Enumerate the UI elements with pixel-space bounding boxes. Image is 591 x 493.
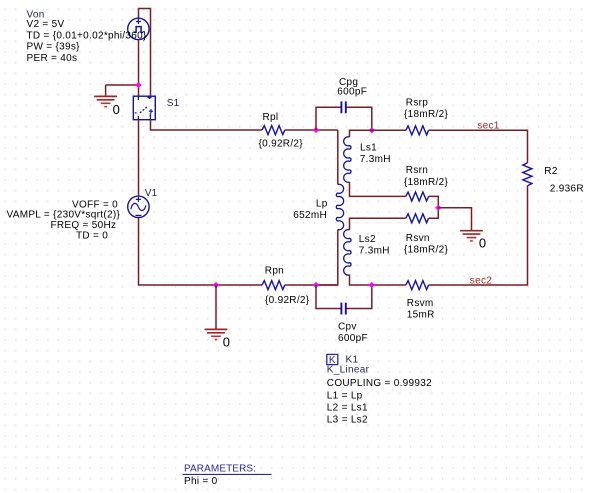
svg-text:PER = 40s: PER = 40s	[27, 53, 78, 64]
svg-text:Phi = 0: Phi = 0	[184, 476, 218, 487]
wire ground tap	[106, 85, 139, 96]
svg-text:sec2: sec2	[470, 275, 492, 286]
wire Rpl to Lp corner	[285, 129, 338, 131]
label V1	[145, 188, 158, 199]
label Ls1	[360, 143, 377, 154]
value Ls2	[359, 245, 390, 256]
svg-text:600pF: 600pF	[337, 87, 367, 98]
svg-text:652mH: 652mH	[293, 210, 327, 221]
svg-text:2.936R: 2.936R	[550, 184, 584, 195]
wire switch to Rpl rail	[151, 120, 263, 130]
value L3	[327, 415, 368, 426]
wire secondary top	[350, 130, 406, 137]
svg-text:sec1: sec1	[477, 121, 499, 132]
junction Cpv right	[369, 282, 375, 288]
svg-text:{18mR/2}: {18mR/2}	[404, 109, 448, 120]
node 0 label right ground	[479, 236, 486, 251]
value R2	[550, 184, 584, 195]
resistor Rsrn	[406, 192, 429, 201]
svg-text:TD = {0.01+0.02*phi/360}: TD = {0.01+0.02*phi/360}	[27, 30, 147, 41]
resistor R2	[523, 163, 532, 186]
svg-text:L1 = Lp: L1 = Lp	[327, 391, 363, 402]
value Rsrp	[404, 109, 448, 120]
junction at ground tap	[135, 82, 141, 88]
junction Cpg right	[369, 127, 375, 133]
svg-text:600pF: 600pF	[338, 333, 368, 344]
svg-text:R2: R2	[544, 166, 558, 177]
label Cpg	[339, 77, 358, 88]
label Lp	[316, 199, 328, 210]
junction secondary mid	[435, 205, 441, 211]
net label sec2	[470, 275, 492, 286]
ground left	[94, 96, 117, 106]
wire Ls1 bottom to Rsrn	[350, 182, 406, 196]
voltage source Von	[128, 18, 149, 39]
label R2	[544, 166, 558, 177]
value L1	[327, 391, 363, 402]
inductor Ls2	[344, 230, 351, 275]
wire R2 bottom	[429, 186, 528, 285]
svg-text:PARAMETERS:: PARAMETERS:	[184, 463, 256, 474]
wire mid junction to ground	[438, 208, 471, 231]
label Von	[27, 9, 45, 20]
wire switch to V1	[138, 120, 140, 196]
svg-text:Rsrp: Rsrp	[406, 98, 428, 109]
voltage source V1	[128, 196, 149, 217]
value COUPLING	[327, 378, 432, 389]
svg-text:15mR: 15mR	[407, 310, 435, 321]
capacitor Cpv with wires	[316, 285, 372, 315]
junction Cpv left	[313, 282, 319, 288]
resistor Rsvn	[406, 214, 429, 223]
junction Cpg left	[313, 127, 319, 133]
inductor Ls1	[344, 137, 351, 182]
coupling K1	[327, 354, 338, 366]
value Lp	[293, 210, 327, 221]
svg-text:VOFF = 0: VOFF = 0	[72, 199, 118, 210]
label Rsvn	[406, 233, 430, 244]
value Rpn	[265, 295, 310, 306]
value VAMPL	[7, 210, 121, 221]
label Rpl	[263, 112, 279, 123]
net label sec1	[477, 121, 499, 132]
svg-text:L2 = Ls1: L2 = Ls1	[327, 403, 368, 414]
label Rpn	[265, 265, 284, 276]
value VOFF	[72, 199, 118, 210]
label Rsvm	[407, 298, 434, 309]
node 0 label bottom ground	[223, 335, 230, 350]
node 0 label left ground	[113, 102, 120, 117]
svg-text:S1: S1	[167, 98, 180, 109]
wire sec1	[429, 130, 528, 163]
svg-text:PW = {39s}: PW = {39s}	[27, 42, 81, 53]
svg-text:Rsrn: Rsrn	[406, 165, 428, 176]
svg-text:0: 0	[479, 236, 486, 251]
wire Lp bottom stub	[316, 230, 338, 286]
junction bottom ground	[213, 282, 219, 288]
svg-text:Lp: Lp	[316, 199, 328, 210]
label K1	[346, 354, 359, 365]
svg-text:TD = 0: TD = 0	[76, 230, 108, 241]
value TD2	[76, 230, 108, 241]
ground right	[460, 231, 483, 241]
svg-text:Rsvm: Rsvm	[407, 298, 434, 309]
resistor Rsrp	[406, 126, 429, 135]
svg-text:0: 0	[223, 335, 230, 350]
svg-text:L3 = Ls2: L3 = Ls2	[327, 415, 368, 426]
svg-text:{18mR/2}: {18mR/2}	[404, 177, 448, 188]
label Rsrp	[406, 98, 428, 109]
svg-text:Ls2: Ls2	[359, 234, 376, 245]
svg-text:7.3mH: 7.3mH	[360, 154, 391, 165]
svg-text:V2 = 5V: V2 = 5V	[27, 19, 65, 30]
label S1	[167, 98, 180, 109]
svg-text:{18mR/2}: {18mR/2}	[404, 245, 448, 256]
value Cpg	[337, 87, 367, 98]
value text PW	[27, 42, 81, 53]
value Rpl	[259, 139, 304, 150]
wire V1 to bottom rail	[139, 218, 263, 286]
wire Von bottom to switch	[138, 40, 140, 97]
value Rsvm	[407, 310, 435, 321]
svg-text:Cpv: Cpv	[338, 322, 357, 333]
inductor Lp	[336, 184, 343, 229]
svg-text:COUPLING = 0.99932: COUPLING = 0.99932	[327, 378, 432, 389]
svg-text:Rpn: Rpn	[265, 265, 284, 276]
label Rsrn	[406, 165, 428, 176]
capacitor Cpg with wires	[316, 101, 372, 130]
ground bottom	[205, 329, 228, 339]
wire Lp top stub	[337, 130, 339, 185]
value Cpv	[338, 333, 368, 344]
wire Rsvn to Ls2	[350, 218, 406, 230]
svg-text:0: 0	[113, 102, 120, 117]
svg-text:{0.92R/2}: {0.92R/2}	[265, 295, 310, 306]
resistor Rpl	[262, 126, 285, 135]
label K_Linear	[327, 364, 370, 375]
wire Rpn to rail gap	[285, 284, 338, 286]
wire top loop from Von to switch	[139, 9, 151, 97]
value L2	[327, 403, 368, 414]
wire Ls2 bottom to rail	[350, 275, 406, 286]
value Rsvn	[404, 245, 448, 256]
value FREQ	[51, 220, 117, 231]
svg-text:7.3mH: 7.3mH	[359, 245, 390, 256]
value text V2	[27, 19, 65, 30]
parameters block	[183, 463, 272, 487]
svg-text:V1: V1	[145, 188, 158, 199]
value Ls1	[360, 154, 391, 165]
switch S1	[133, 96, 155, 120]
svg-text:Rpl: Rpl	[263, 112, 279, 123]
value Rsrn	[404, 177, 448, 188]
resistor Rsvm	[406, 281, 429, 290]
wire Rsrn to mid junction	[429, 196, 439, 218]
label Cpv	[338, 322, 357, 333]
svg-text:Ls1: Ls1	[360, 143, 377, 154]
svg-text:{0.92R/2}: {0.92R/2}	[259, 139, 304, 150]
label Ls2	[359, 234, 376, 245]
wire ground stem bottom	[215, 285, 217, 329]
value text PER	[27, 53, 78, 64]
resistor Rpn	[262, 281, 285, 290]
value text TD	[27, 30, 147, 41]
svg-text:K_Linear: K_Linear	[327, 364, 370, 375]
svg-text:Rsvn: Rsvn	[406, 233, 430, 244]
